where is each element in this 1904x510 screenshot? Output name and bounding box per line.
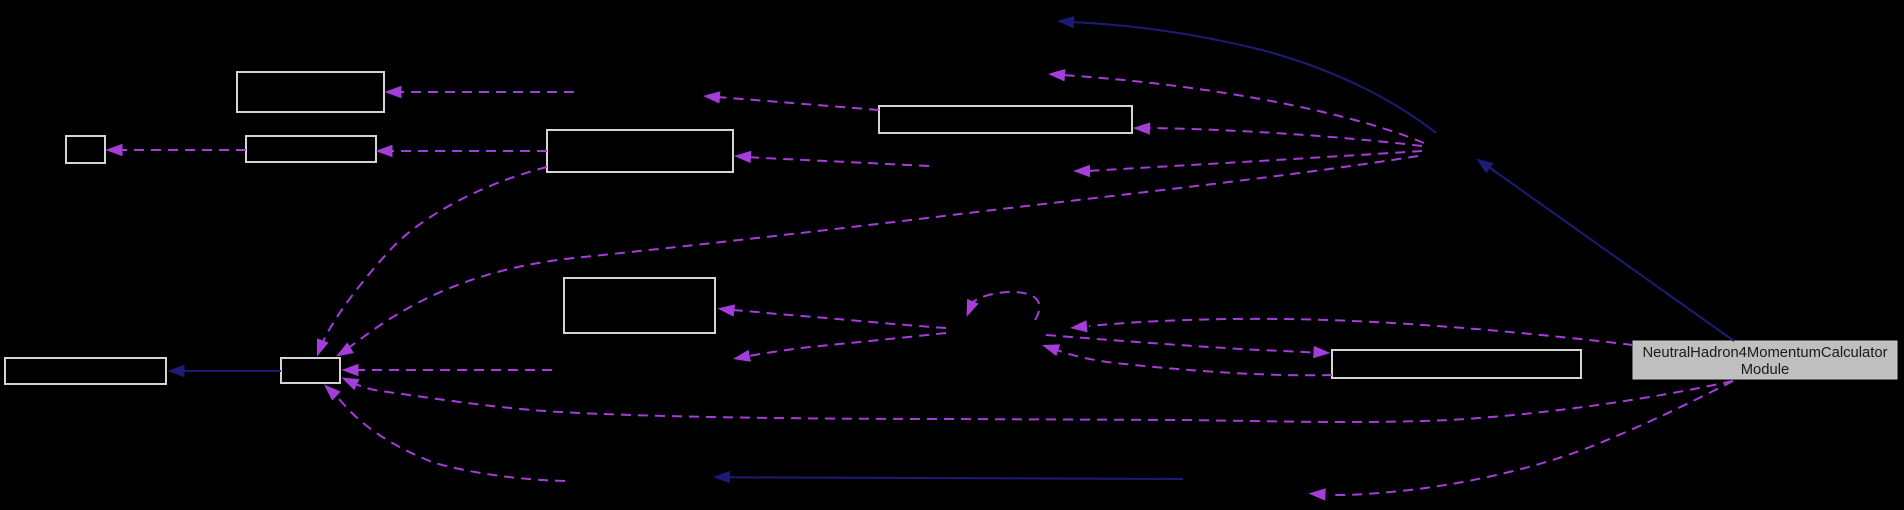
node box B5 [879, 106, 1132, 133]
edge B9->N7 [1042, 344, 1332, 375]
node box B4 [547, 130, 733, 172]
node box B6 [564, 278, 715, 333]
node box B1 [237, 72, 384, 112]
node box B8 [281, 358, 340, 383]
edge B4->B3 [376, 145, 548, 157]
main node NeutralHadron4MomentumCalculatorModule [1633, 341, 1897, 379]
svg-text:NeutralHadron4MomentumCalculat: NeutralHadron4MomentumCalculator [1642, 345, 1887, 361]
edge N2->B4 [734, 151, 929, 166]
edge B4->B8 [317, 167, 547, 357]
edge hub->B8 [336, 156, 1418, 357]
edge B5->N1 [703, 91, 879, 110]
node box B7 [5, 358, 166, 384]
node box B9 [1332, 350, 1581, 378]
edge B8->B7 (blue) [168, 365, 282, 377]
edge greybox->B8 [342, 378, 1734, 423]
edge Z->Y (blue) [713, 471, 1183, 483]
edge greybox->N7 [1070, 319, 1633, 345]
svg-text:Module: Module [1741, 362, 1790, 378]
edge hub->N4 (blue) [1057, 16, 1436, 133]
self loop on node N7 [967, 292, 1040, 320]
edge N7->N8 [733, 333, 946, 362]
edge hub->N3 [1048, 69, 1424, 143]
edge N7->B6 [718, 304, 947, 328]
edge greybox->Z [1309, 381, 1734, 501]
edge hub->N2 [1073, 151, 1422, 177]
edge Y->B8 [324, 385, 565, 482]
edge N8->B8 [342, 364, 553, 376]
edge N1->B1 [385, 86, 575, 98]
edge N7->B9 [1046, 335, 1331, 358]
edge greybox->hub (blue) [1476, 159, 1734, 342]
node box B2 [66, 136, 105, 163]
edge B3->B2 [106, 144, 247, 156]
node box B3 [246, 136, 376, 162]
edge hub->B5 [1133, 122, 1422, 146]
